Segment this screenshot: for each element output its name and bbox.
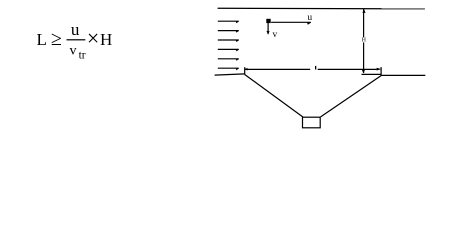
H dimension bottom arrowhead [362, 70, 365, 74]
depth dimension line H upper segment [363, 9, 365, 37]
svg-text:v: v [273, 30, 278, 40]
length dimension line L left segment [245, 68, 310, 70]
left basin floor line [215, 74, 245, 75]
depth dimension line H lower segment [363, 42, 365, 73]
label l small on dimension line [315, 66, 316, 70]
svg-text:H: H [100, 30, 112, 49]
H dimension top arrowhead [362, 9, 365, 13]
svg-text:u: u [71, 20, 80, 39]
hopper left slant wall [245, 75, 303, 118]
right corner extension tick [380, 67, 382, 76]
L dimension left arrowhead [244, 68, 247, 71]
hopper right slant wall [321, 76, 382, 117]
left corner extension tick [244, 67, 246, 74]
velocity profile arrow 1 [218, 21, 239, 23]
velocity profile arrow 2 [218, 31, 239, 33]
velocity profile arrow 4 [218, 49, 239, 51]
svg-text:×: × [87, 25, 99, 50]
right outlet floor line [381, 74, 425, 76]
velocity profile arrow 6 [218, 68, 239, 70]
length dimension line L right segment [318, 68, 377, 70]
particle horizontal velocity arrow u [271, 22, 311, 24]
svg-text:u: u [307, 13, 312, 23]
shelf line under H dimension [362, 73, 382, 75]
L dimension right arrowhead [377, 68, 382, 71]
svg-text:v: v [70, 44, 77, 59]
sludge outlet box [303, 117, 321, 128]
top water surface line [218, 7, 425, 10]
particle settling velocity arrow v [267, 23, 270, 35]
svg-text:L: L [37, 30, 47, 49]
velocity profile arrow 5 [218, 59, 239, 61]
svg-text:≥: ≥ [51, 28, 62, 50]
svg-text:tr: tr [79, 50, 86, 62]
particle dot [266, 19, 270, 23]
formula fraction bar [67, 39, 86, 40]
velocity profile arrow 3 [218, 40, 239, 42]
